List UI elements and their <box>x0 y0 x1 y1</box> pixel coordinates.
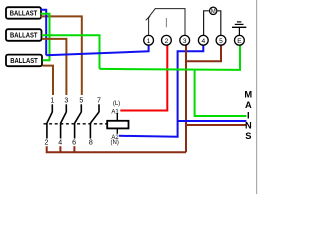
svg-text:A: A <box>245 100 252 110</box>
svg-text:1: 1 <box>147 38 151 45</box>
wire blue B1 vertical <box>41 10 47 56</box>
svg-text:BALLAST: BALLAST <box>10 56 38 65</box>
page right edge line <box>256 0 258 194</box>
earth symbol above E <box>232 22 246 35</box>
ballast B2 box <box>6 29 42 41</box>
contactor pole 2 <box>61 104 67 138</box>
wire brown stub contact 6 <box>73 146 75 152</box>
wire green B2 across and down <box>42 35 100 69</box>
svg-text:N: N <box>245 121 252 131</box>
svg-text:E: E <box>237 38 242 45</box>
coil lead A1 <box>116 113 118 121</box>
wire blue terminal 4 to coil A2 <box>119 45 203 136</box>
ballast B3 box <box>6 55 42 67</box>
svg-text:5: 5 <box>219 38 223 45</box>
wire brown bottom bus <box>47 146 186 152</box>
svg-text:4: 4 <box>58 140 62 147</box>
svg-text:2: 2 <box>44 140 48 147</box>
svg-text:1: 1 <box>50 97 54 104</box>
MAINS vertical label <box>244 90 252 142</box>
terminal circle 1 <box>144 35 154 45</box>
svg-text:3: 3 <box>64 97 68 104</box>
svg-text:M: M <box>211 9 216 15</box>
wire brown B2 to contact 3 <box>42 39 67 95</box>
wire brown mains L <box>186 124 246 126</box>
svg-text:3: 3 <box>183 38 187 45</box>
coil K1 box <box>107 121 128 129</box>
wire green B1 down into B3 <box>41 14 50 60</box>
svg-text:(L): (L) <box>113 101 120 107</box>
svg-text:6: 6 <box>72 140 76 147</box>
svg-text:2: 2 <box>165 38 169 45</box>
wire blue long neutral to terminal 1 <box>46 45 148 55</box>
terminal circle E <box>235 35 245 45</box>
terminal circle 3 <box>180 35 190 45</box>
svg-text:I: I <box>247 110 250 120</box>
linkage dashed line <box>44 123 108 125</box>
svg-text:7: 7 <box>97 97 101 104</box>
svg-text:5: 5 <box>79 97 83 104</box>
svg-text:4: 4 <box>201 38 205 45</box>
contactor pole 3 <box>75 104 82 138</box>
contactor bottom terminal labels 2 4 6 8 <box>44 140 92 147</box>
terminal circle 4 <box>198 35 208 45</box>
svg-text:A1: A1 <box>111 109 119 115</box>
wire dark brown terminal 3 down to bottom bus <box>185 45 187 152</box>
motor leads to terminals 4 and 5 <box>204 11 221 35</box>
wire brown B1 to contact 5 <box>41 16 82 95</box>
terminal circle 5 <box>216 35 226 45</box>
wire dark brown terminal 5 branch <box>186 45 221 61</box>
svg-text:BALLAST: BALLAST <box>10 9 38 18</box>
wire green branch to mains earth <box>195 70 247 117</box>
coil lead A2 <box>116 128 118 133</box>
svg-text:8: 8 <box>89 140 93 147</box>
contactor pole 1 <box>47 104 52 138</box>
svg-text:(N): (N) <box>111 140 119 146</box>
unused stub above terminal 2 <box>165 18 167 27</box>
svg-text:M: M <box>244 90 252 100</box>
svg-text:S: S <box>245 131 251 141</box>
wire brown stub contact 4 <box>59 146 61 152</box>
contactor pole 4 <box>90 104 99 138</box>
ballast B1 box <box>6 7 41 19</box>
switch S1 between terminals 1 and 3 <box>146 8 186 35</box>
wire blue mains N <box>178 120 247 122</box>
wire green earth bus to E and mains <box>100 45 241 70</box>
motor M circle <box>210 7 217 15</box>
wire brown B3 to contact 1 <box>43 66 54 95</box>
terminal circle 2 <box>162 35 172 45</box>
svg-text:BALLAST: BALLAST <box>10 31 38 40</box>
contactor top terminal labels 1 3 5 7 <box>50 97 101 104</box>
wire red terminal 2 to coil A1 <box>120 45 167 110</box>
